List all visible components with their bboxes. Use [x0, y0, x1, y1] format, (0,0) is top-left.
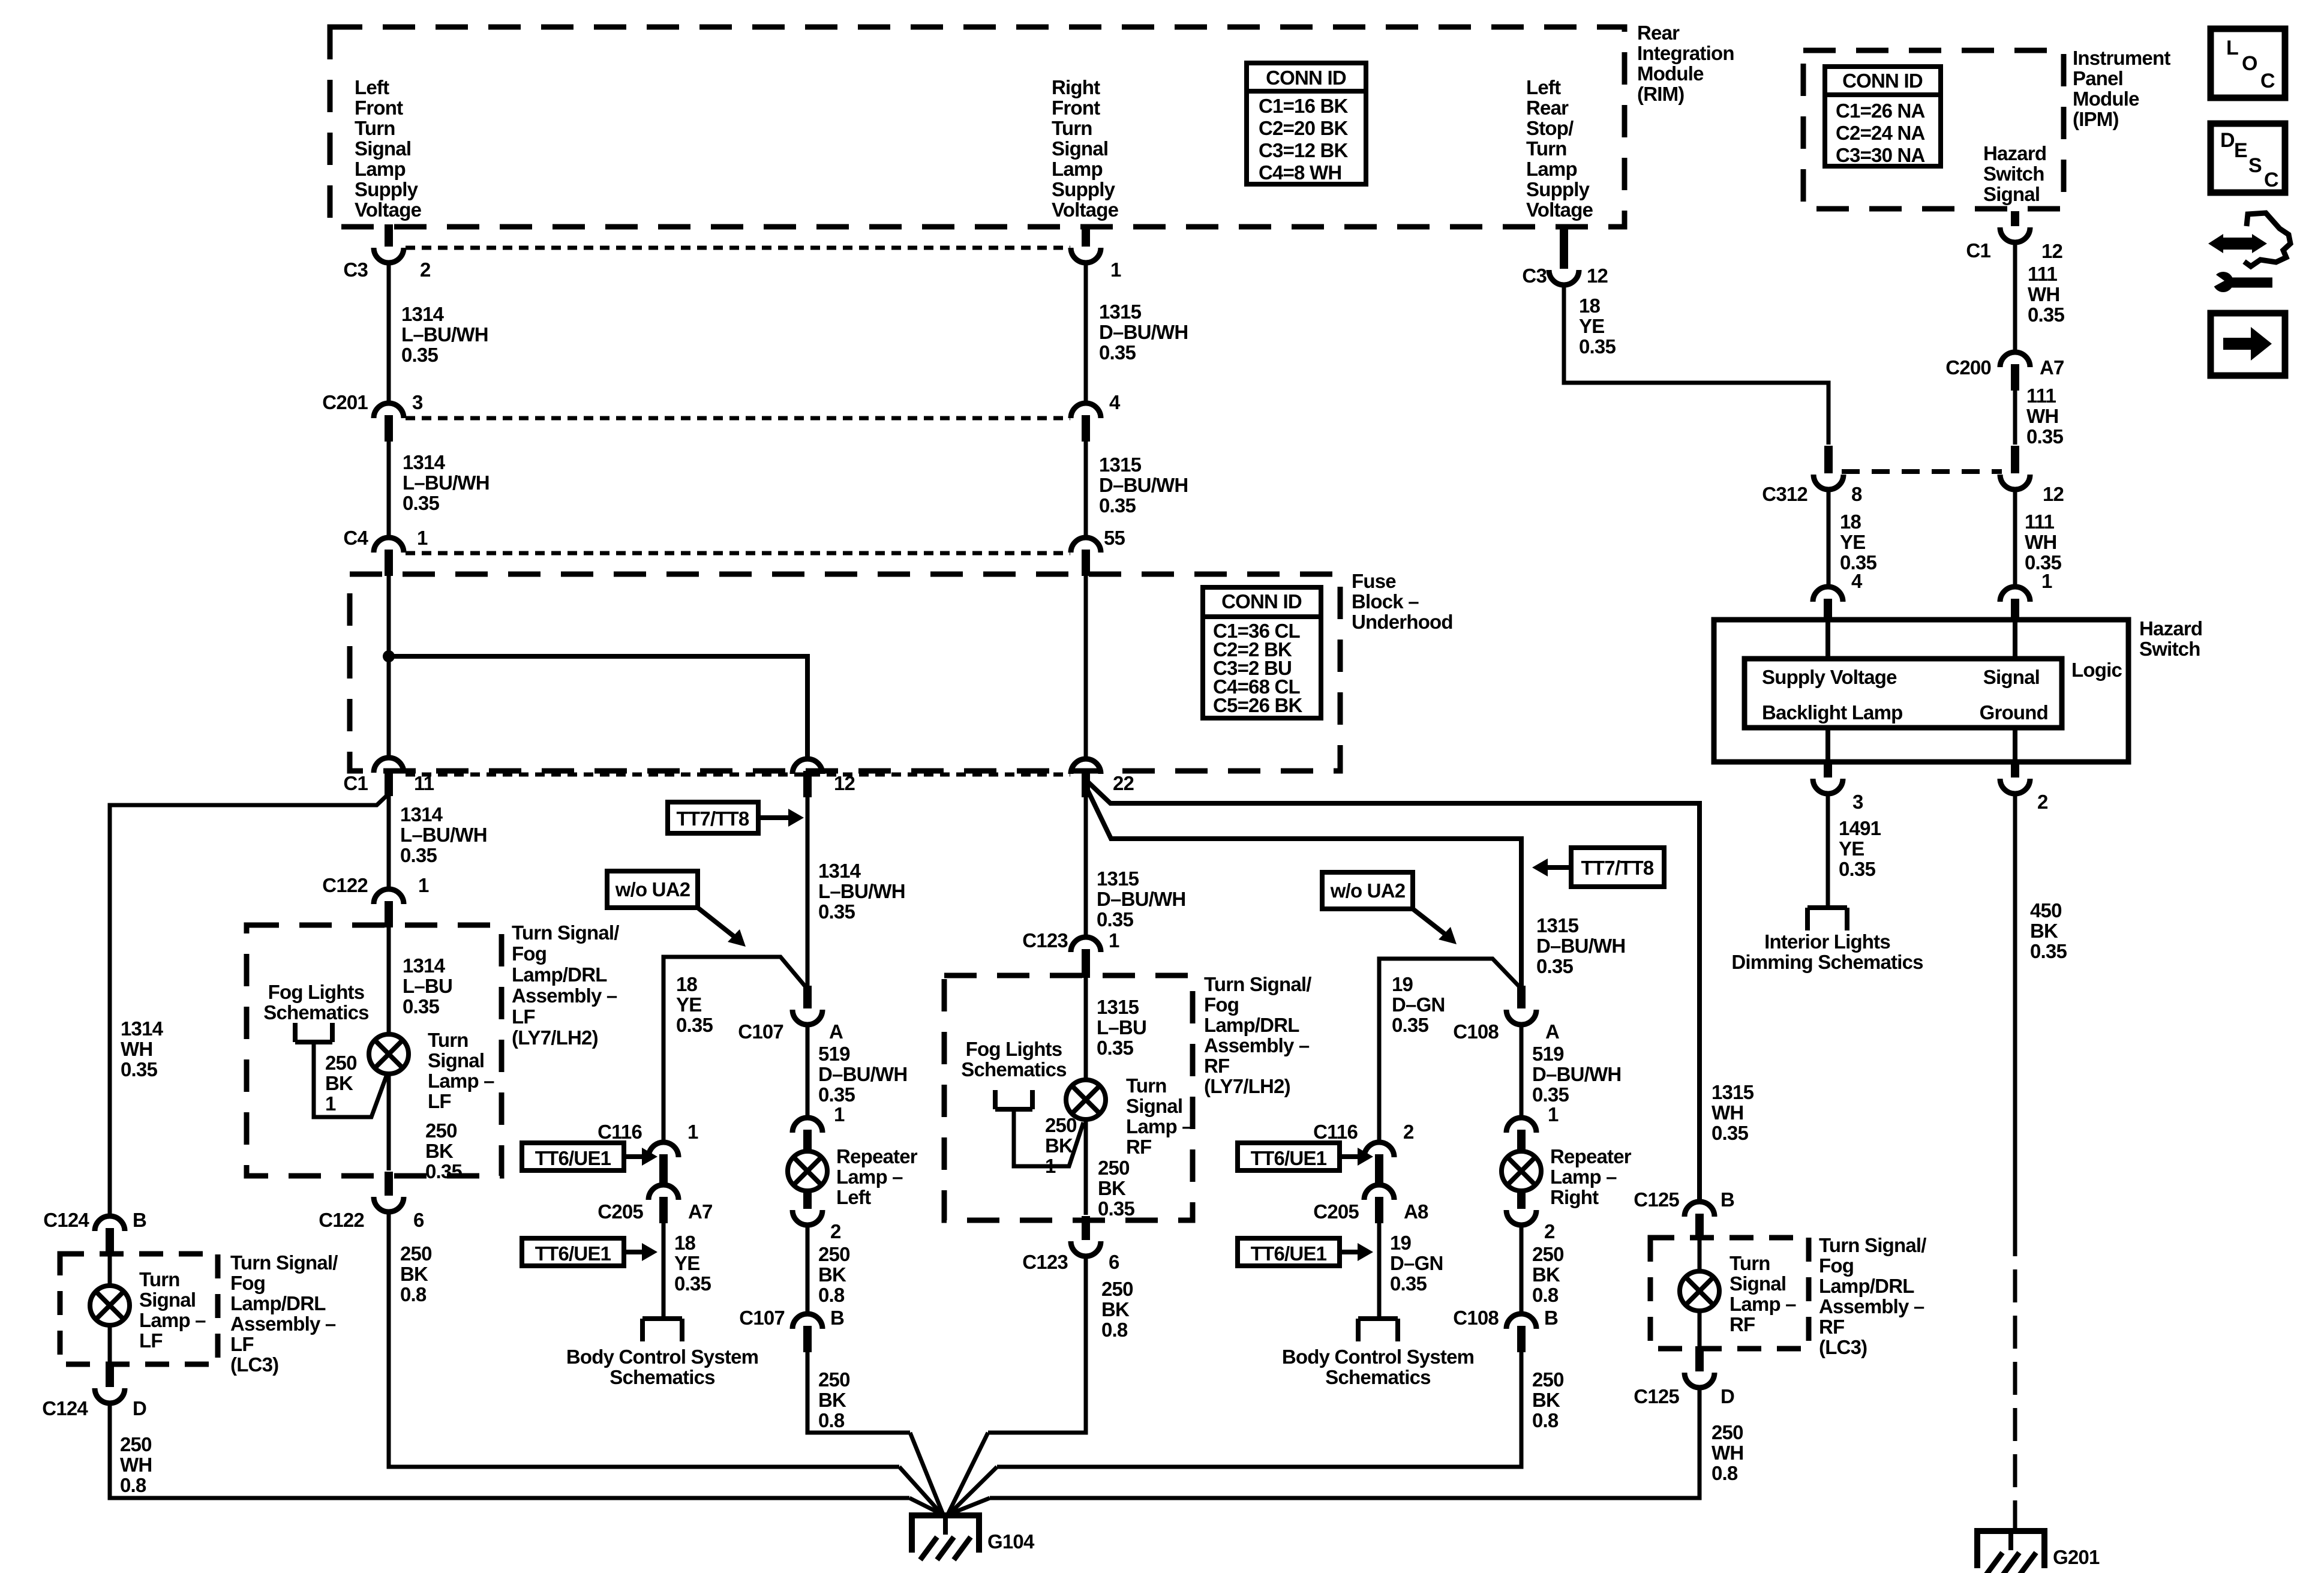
reference box w/o UA2 right with arrow: [1322, 872, 1413, 909]
wire 1315 D-BU/WH from 4 to 55: [1084, 439, 1088, 538]
module box: Turn Signal/Fog Lamp/DRL Assembly - LF (LY7/LH2): [247, 925, 502, 1176]
reference box TT6/UE1 right lower with arrow: [1238, 1238, 1340, 1266]
svg-text:TT7/TT8: TT7/TT8: [677, 807, 749, 830]
connector C116 pin 1: [648, 1142, 678, 1157]
svg-text:0.8: 0.8: [1532, 1284, 1559, 1306]
svg-text:Dimming Schematics: Dimming Schematics: [1731, 951, 1923, 973]
svg-text:C124: C124: [42, 1397, 88, 1419]
ground G104: [912, 1515, 979, 1553]
svg-text:Interior Lights: Interior Lights: [1764, 930, 1890, 953]
svg-text:Turn: Turn: [355, 117, 395, 139]
wire 250 BK 0.8 from C107-B to ground bus: [807, 1352, 910, 1433]
wire into fuse block: [387, 575, 391, 656]
svg-text:(LC3): (LC3): [1819, 1336, 1867, 1358]
svg-text:Hazard: Hazard: [1983, 142, 2046, 164]
svg-text:LF: LF: [428, 1090, 451, 1112]
svg-text:Lamp –: Lamp –: [1126, 1115, 1193, 1137]
svg-text:Lamp –: Lamp –: [836, 1166, 903, 1188]
wire 250 BK 0.8 from C108-B to ground bus: [997, 1352, 1521, 1467]
svg-text:G104: G104: [987, 1530, 1035, 1553]
svg-text:Lamp –: Lamp –: [1550, 1166, 1617, 1188]
svg-text:D: D: [2220, 129, 2235, 152]
svg-text:250: 250: [425, 1119, 457, 1142]
svg-text:C122: C122: [319, 1209, 364, 1231]
module box: Turn Signal/Fog Lamp/DRL Assembly - RF (LY7/LH2): [944, 975, 1193, 1220]
svg-text:519: 519: [818, 1043, 850, 1065]
svg-text:Fog Lights: Fog Lights: [966, 1038, 1062, 1060]
svg-text:C: C: [2264, 169, 2278, 191]
svg-text:S: S: [2248, 154, 2262, 177]
repeater lamp right pin 1: [1506, 1118, 1536, 1133]
svg-text:250: 250: [818, 1243, 850, 1265]
connector 22 (fuse block): [1071, 759, 1101, 774]
off-page symbol interior lights: [1807, 905, 1847, 910]
svg-text:6: 6: [1109, 1251, 1119, 1273]
wire 250 BK 0.8 to C108-B: [1520, 1224, 1524, 1314]
svg-text:C1: C1: [343, 772, 368, 794]
svg-text:TT6/UE1: TT6/UE1: [535, 1147, 611, 1169]
svg-text:Right: Right: [1052, 76, 1100, 98]
RIM CONN ID table: [1247, 63, 1366, 184]
svg-text:YE: YE: [1840, 531, 1865, 553]
fog lights stub symbol LF: [293, 1023, 298, 1042]
dotted bus line row C3/2-1: [406, 246, 1070, 250]
icon box forward arrow: [2211, 313, 2285, 376]
svg-text:Fog: Fog: [1204, 993, 1239, 1016]
svg-text:Lamp: Lamp: [355, 158, 406, 180]
svg-text:Lamp/DRL: Lamp/DRL: [1819, 1275, 1914, 1297]
svg-text:1314: 1314: [400, 803, 443, 825]
svg-text:C201: C201: [322, 391, 368, 413]
svg-text:0.35: 0.35: [1839, 858, 1875, 880]
wire 22 branch diagonal to C108 feed: [1088, 790, 1521, 987]
svg-text:L: L: [2226, 37, 2238, 59]
svg-text:YE: YE: [1579, 315, 1604, 337]
svg-text:TT7/TT8: TT7/TT8: [1581, 857, 1654, 879]
svg-text:Logic: Logic: [2071, 659, 2122, 681]
svg-text:0.35: 0.35: [1099, 341, 1136, 364]
Fuse Block CONN ID table: [1203, 587, 1321, 718]
svg-text:YE: YE: [674, 1252, 699, 1274]
svg-text:CONN ID: CONN ID: [1221, 590, 1302, 613]
svg-text:0.35: 0.35: [1712, 1122, 1748, 1144]
svg-text:1: 1: [325, 1092, 336, 1115]
svg-text:C108: C108: [1453, 1020, 1499, 1043]
svg-text:2: 2: [1403, 1121, 1414, 1143]
module box: Turn Signal/Fog Lamp/DRL Assembly - LF (LC3): [60, 1254, 218, 1364]
svg-text:C205: C205: [597, 1200, 643, 1223]
ground G201: [1977, 1531, 2044, 1568]
svg-text:Module: Module: [2073, 88, 2139, 110]
svg-text:YE: YE: [676, 993, 701, 1016]
wire fog stub to lamp LF: [314, 1042, 387, 1117]
svg-text:1: 1: [687, 1121, 698, 1143]
lamp: Turn Signal Lamp - LF: [369, 1034, 409, 1074]
svg-text:C3: C3: [1522, 265, 1547, 287]
connector (RIM right) pin 1: [1082, 224, 1090, 247]
wire 18 YE from C3-12 to C312-8: [1564, 283, 1828, 445]
IPM CONN ID table: [1825, 67, 1941, 166]
wire through fuse block to 22: [1084, 575, 1088, 758]
junction node in fuse block: [383, 650, 395, 662]
connector C205 pin A7: [648, 1185, 678, 1200]
svg-text:w/o UA2: w/o UA2: [615, 878, 690, 900]
svg-text:BK: BK: [1532, 1389, 1560, 1411]
svg-text:D–BU/WH: D–BU/WH: [818, 1063, 907, 1085]
svg-text:(IPM): (IPM): [2073, 108, 2119, 130]
connector C108 pin A: [1517, 986, 1526, 1008]
wire 18 YE to body control ref: [662, 1223, 666, 1319]
svg-text:TT6/UE1: TT6/UE1: [535, 1242, 611, 1265]
svg-text:450: 450: [2030, 899, 2062, 921]
svg-text:Repeater: Repeater: [836, 1145, 918, 1167]
svg-text:Ground: Ground: [1980, 701, 2048, 724]
svg-text:C: C: [2260, 70, 2275, 92]
svg-text:250: 250: [120, 1433, 152, 1455]
svg-text:Lamp/DRL: Lamp/DRL: [1204, 1014, 1299, 1036]
svg-text:Switch: Switch: [1983, 163, 2044, 185]
svg-text:A7: A7: [688, 1200, 713, 1223]
svg-text:1: 1: [1548, 1103, 1559, 1125]
svg-text:2: 2: [2037, 791, 2048, 813]
wire C1-11 down to C122-1: [387, 796, 391, 890]
svg-text:Module: Module: [1637, 62, 1704, 85]
svg-text:E: E: [2234, 139, 2247, 162]
svg-text:Turn Signal/: Turn Signal/: [1819, 1234, 1926, 1256]
connector C122 pin 6: [385, 1172, 393, 1196]
wire hazard pin1 to logic: [2013, 622, 2017, 659]
wire 1314 L-BU inside box: [387, 927, 391, 1034]
svg-text:250: 250: [325, 1052, 357, 1074]
svg-text:1315: 1315: [1099, 454, 1142, 476]
svg-text:Supply: Supply: [1052, 178, 1116, 200]
reference box TT7/TT8 left with arrow: [668, 802, 758, 833]
svg-text:Supply Voltage: Supply Voltage: [1762, 666, 1897, 688]
svg-text:250: 250: [400, 1242, 432, 1265]
wire fan into G104 from C125-D bus: [948, 1498, 990, 1515]
svg-text:55: 55: [1104, 527, 1125, 549]
svg-text:1: 1: [2041, 570, 2052, 592]
svg-text:RF: RF: [1204, 1055, 1229, 1077]
svg-text:1: 1: [418, 874, 429, 896]
svg-text:C116: C116: [597, 1121, 642, 1143]
wire 18 YE from C312-8 to hazard pin 4: [1827, 489, 1831, 584]
svg-text:Lamp/DRL: Lamp/DRL: [512, 963, 607, 986]
svg-text:0.8: 0.8: [1712, 1462, 1738, 1484]
dotted bus line row C4/1-55: [406, 551, 1070, 556]
wire fan into G104 from C123-6 bus: [948, 1433, 988, 1514]
svg-text:Front: Front: [1052, 97, 1100, 119]
svg-text:Rear: Rear: [1637, 22, 1680, 44]
svg-text:C4=8 WH: C4=8 WH: [1259, 161, 1341, 184]
svg-text:0.35: 0.35: [2028, 304, 2064, 326]
svg-text:Left: Left: [836, 1186, 871, 1208]
svg-text:0.8: 0.8: [818, 1284, 845, 1306]
svg-text:C2=20 BK: C2=20 BK: [1259, 117, 1349, 139]
svg-text:LF: LF: [230, 1333, 254, 1355]
svg-text:Turn: Turn: [1052, 117, 1092, 139]
svg-text:G201: G201: [2053, 1546, 2100, 1568]
svg-text:Backlight Lamp: Backlight Lamp: [1762, 701, 1903, 724]
svg-text:Signal: Signal: [1983, 183, 2040, 205]
svg-text:Lamp: Lamp: [1526, 158, 1577, 180]
svg-text:RF: RF: [1819, 1316, 1844, 1338]
svg-text:Left: Left: [1526, 76, 1561, 98]
svg-text:250: 250: [818, 1368, 850, 1391]
svg-text:Signal: Signal: [1730, 1272, 1786, 1295]
svg-text:B: B: [133, 1209, 146, 1231]
lamp: Turn Signal Lamp - RF: [1066, 1080, 1106, 1119]
svg-text:B: B: [830, 1307, 844, 1329]
svg-text:Supply: Supply: [355, 178, 419, 200]
svg-text:11: 11: [414, 772, 434, 794]
svg-text:Assembly –: Assembly –: [1819, 1295, 1924, 1317]
svg-text:D–BU/WH: D–BU/WH: [1532, 1063, 1621, 1085]
svg-text:WH: WH: [1712, 1101, 1743, 1124]
svg-text:WH: WH: [2028, 283, 2059, 305]
svg-text:C123: C123: [1022, 1251, 1068, 1273]
wire fan into G104 from C108-B bus: [949, 1467, 997, 1514]
svg-text:0.8: 0.8: [818, 1409, 845, 1431]
svg-text:250: 250: [1712, 1421, 1743, 1443]
wire 519 D-BU/WH to repeater lamp right: [1520, 1026, 1524, 1118]
svg-text:1: 1: [1109, 929, 1119, 951]
wire 519 D-BU/WH to repeater lamp left: [806, 1026, 810, 1118]
connector C123 pin 1: [1071, 937, 1101, 952]
svg-text:Fog: Fog: [512, 942, 547, 965]
svg-text:250: 250: [1532, 1243, 1564, 1265]
svg-text:2: 2: [420, 259, 431, 281]
svg-text:1314: 1314: [818, 860, 861, 882]
svg-text:Lamp: Lamp: [1052, 158, 1103, 180]
connector C200 pin A7: [2000, 352, 2030, 367]
svg-text:C3=30 NA: C3=30 NA: [1836, 144, 1925, 166]
svg-text:Left: Left: [355, 76, 389, 98]
svg-text:C108: C108: [1453, 1307, 1499, 1329]
wire 111 WH from C1-12 to C200-A7: [2013, 241, 2017, 353]
module box: Rear Integration Module (RIM): [330, 27, 1625, 227]
svg-text:Underhood: Underhood: [1352, 611, 1453, 633]
reference box TT6/UE1 left upper with arrow: [522, 1143, 624, 1170]
connector C125 pin B: [1685, 1202, 1715, 1217]
connector C3 pin 2: [385, 224, 393, 247]
repeater lamp right pin 2: [1517, 1190, 1526, 1209]
svg-text:1491: 1491: [1839, 817, 1881, 839]
connector C124 pin B: [95, 1216, 125, 1231]
svg-text:BK: BK: [325, 1072, 353, 1094]
svg-text:BK: BK: [400, 1263, 428, 1285]
svg-text:B: B: [1544, 1307, 1558, 1329]
dashed connector link C312: [1842, 469, 2002, 474]
icon: service tool (double arrow, outline, wrench): [2221, 238, 2254, 250]
svg-text:2: 2: [1544, 1220, 1555, 1242]
svg-text:2: 2: [830, 1220, 841, 1242]
svg-text:0.8: 0.8: [1101, 1319, 1128, 1341]
svg-text:BK: BK: [1045, 1134, 1073, 1157]
svg-text:3: 3: [1852, 791, 1863, 813]
svg-text:Turn Signal/: Turn Signal/: [1204, 973, 1311, 995]
wire 250 BK below lamp RF: [1084, 1120, 1088, 1215]
connector 12 (fuse block): [792, 759, 822, 774]
svg-text:C123: C123: [1022, 929, 1068, 951]
off-page symbol body control left: [642, 1316, 682, 1321]
svg-text:Fuse: Fuse: [1352, 570, 1396, 592]
svg-text:1314: 1314: [403, 451, 446, 473]
hazard switch connector pin 1: [2000, 587, 2030, 602]
connector C108 pin B: [1506, 1314, 1536, 1329]
connector C124 pin D: [108, 1326, 112, 1362]
svg-text:D–GN: D–GN: [1390, 1252, 1443, 1274]
svg-text:0.8: 0.8: [400, 1283, 427, 1305]
svg-text:WH: WH: [2025, 531, 2056, 553]
svg-text:Repeater: Repeater: [1550, 1145, 1632, 1167]
wire junction down to C1-11: [387, 656, 391, 758]
wire logic to hazard pin3: [1825, 728, 1830, 761]
svg-text:18: 18: [1840, 511, 1861, 533]
svg-text:Assembly –: Assembly –: [512, 984, 617, 1007]
svg-text:250: 250: [1098, 1157, 1130, 1179]
svg-text:BK: BK: [2030, 920, 2058, 942]
svg-text:3: 3: [412, 391, 423, 413]
svg-text:Turn: Turn: [1730, 1252, 1770, 1274]
lamp: Turn Signal Lamp - RF (LC3): [1698, 1240, 1702, 1271]
wire 250 BK 0.8 from C123-6 to ground bus: [988, 1257, 1086, 1433]
svg-text:BK: BK: [1098, 1177, 1126, 1199]
svg-text:519: 519: [1532, 1043, 1564, 1065]
svg-text:L–BU/WH: L–BU/WH: [400, 824, 487, 846]
hazard switch connector pin 2: [2011, 760, 2019, 778]
svg-text:4: 4: [1851, 570, 1863, 592]
connector C312 pin 12: [2011, 446, 2019, 473]
svg-text:Turn: Turn: [139, 1268, 180, 1290]
wire 111 WH from C312-12 to hazard pin 1: [2013, 489, 2017, 584]
hazard switch connector pin 4: [1813, 587, 1843, 602]
svg-text:1314: 1314: [403, 954, 446, 977]
svg-text:Signal: Signal: [1126, 1095, 1182, 1117]
svg-text:1315: 1315: [1712, 1081, 1754, 1103]
svg-text:Fog Lights: Fog Lights: [268, 981, 365, 1003]
svg-text:C1=16 BK: C1=16 BK: [1259, 95, 1349, 117]
svg-text:B: B: [1721, 1188, 1734, 1211]
wire 250 BK 0.8 to C107-B: [806, 1224, 810, 1314]
connector C122 pin 1: [374, 889, 404, 904]
svg-text:Turn: Turn: [1526, 137, 1567, 160]
svg-text:Turn Signal/: Turn Signal/: [230, 1251, 338, 1274]
lamp: Turn Signal Lamp - LF (LC3): [108, 1254, 112, 1285]
repeater lamp left pin 1: [792, 1118, 822, 1133]
svg-text:Hazard: Hazard: [2139, 617, 2202, 640]
svg-text:0.35: 0.35: [676, 1014, 713, 1036]
svg-text:Lamp –: Lamp –: [1730, 1293, 1796, 1315]
svg-text:0.35: 0.35: [1097, 1037, 1133, 1059]
svg-text:Turn: Turn: [428, 1029, 469, 1051]
svg-text:A: A: [829, 1020, 843, 1043]
dotted bus line row C201/3-4: [406, 416, 1070, 421]
svg-text:C124: C124: [43, 1209, 89, 1231]
wire 1491 YE from hazard-3 to interior lights ref: [1826, 792, 1830, 908]
svg-text:A7: A7: [2040, 356, 2064, 379]
svg-text:Assembly –: Assembly –: [230, 1313, 336, 1335]
svg-text:BK: BK: [818, 1263, 846, 1286]
svg-text:0.35: 0.35: [674, 1272, 711, 1295]
svg-text:C312: C312: [1762, 483, 1807, 505]
svg-text:(LY7/LH2): (LY7/LH2): [1204, 1075, 1290, 1097]
wire logic to hazard pin2: [2013, 728, 2017, 761]
svg-text:Schematics: Schematics: [609, 1366, 714, 1388]
svg-text:Signal: Signal: [1052, 137, 1108, 160]
svg-text:C2=24 NA: C2=24 NA: [1836, 122, 1925, 144]
svg-text:12: 12: [2041, 240, 2063, 262]
icon box LOC: [2211, 29, 2285, 98]
svg-text:C116: C116: [1313, 1121, 1358, 1143]
svg-text:1314: 1314: [401, 303, 445, 325]
svg-text:0.35: 0.35: [818, 1083, 855, 1106]
svg-text:Lamp/DRL: Lamp/DRL: [230, 1292, 326, 1314]
svg-text:1315: 1315: [1097, 867, 1139, 890]
dotted bus line row C1/11-12-22: [406, 773, 1070, 777]
svg-text:C125: C125: [1634, 1385, 1679, 1407]
wire fan into G104 from C122-6 bus: [899, 1467, 942, 1514]
hazard switch connector pin 3: [1824, 760, 1832, 778]
svg-text:Block –: Block –: [1352, 590, 1419, 613]
svg-text:(LC3): (LC3): [230, 1353, 278, 1376]
svg-text:Turn: Turn: [1126, 1074, 1167, 1097]
wire junction to connector 12 inside fuse block: [389, 656, 807, 760]
connector C125 pin D: [1698, 1311, 1702, 1346]
svg-text:WH: WH: [2026, 405, 2058, 427]
svg-text:0.35: 0.35: [121, 1058, 157, 1080]
svg-text:C3=12 BK: C3=12 BK: [1259, 139, 1349, 161]
svg-text:D: D: [1721, 1385, 1734, 1407]
connector pin 4: [1071, 403, 1101, 418]
svg-text:0.8: 0.8: [1532, 1409, 1559, 1431]
wire 22 branch diagonal to right bus upper: [1087, 781, 1700, 1202]
svg-text:WH: WH: [121, 1038, 152, 1060]
svg-text:Lamp –: Lamp –: [139, 1309, 206, 1331]
svg-text:22: 22: [1113, 772, 1134, 794]
svg-text:0.35: 0.35: [1536, 955, 1573, 977]
svg-text:0.35: 0.35: [403, 492, 439, 514]
svg-text:111: 111: [2025, 511, 2054, 533]
svg-text:1315: 1315: [1097, 996, 1139, 1018]
svg-text:L–BU/WH: L–BU/WH: [403, 472, 490, 494]
svg-text:Schematics: Schematics: [961, 1058, 1066, 1080]
svg-text:CONN ID: CONN ID: [1266, 67, 1346, 89]
svg-text:1: 1: [1045, 1155, 1056, 1177]
svg-text:Rear: Rear: [1526, 97, 1569, 119]
module box: Fuse Block - Underhood: [350, 574, 1340, 771]
wire 1314 L-BU/WH from 12 to C107-A: [806, 797, 810, 989]
reference box TT6/UE1 left lower with arrow: [522, 1238, 624, 1266]
svg-text:Panel: Panel: [2073, 67, 2123, 89]
svg-text:(LY7/LH2): (LY7/LH2): [512, 1026, 598, 1049]
svg-text:D: D: [133, 1397, 146, 1419]
wire 1314 L-BU/WH from C201-3 to C4-1: [387, 439, 391, 538]
svg-text:C107: C107: [738, 1020, 783, 1043]
svg-text:BK: BK: [425, 1140, 454, 1162]
svg-text:C200: C200: [1945, 356, 1991, 379]
svg-text:0.35: 0.35: [1390, 1272, 1427, 1295]
svg-text:111: 111: [2026, 385, 2056, 407]
svg-text:18: 18: [1579, 295, 1601, 317]
fog lights stub symbol RF: [993, 1090, 998, 1109]
svg-text:Signal: Signal: [428, 1049, 484, 1071]
svg-text:0.35: 0.35: [1097, 908, 1133, 930]
wire hazard pin4 to logic: [1825, 622, 1830, 659]
svg-text:Supply: Supply: [1526, 178, 1590, 200]
svg-text:Switch: Switch: [2139, 638, 2200, 660]
connector pin 55: [1071, 538, 1101, 553]
